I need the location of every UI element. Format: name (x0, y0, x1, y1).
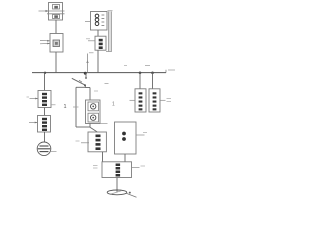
svg-text:1: 1 (112, 102, 115, 108)
svg-text:1: 1 (64, 104, 67, 110)
